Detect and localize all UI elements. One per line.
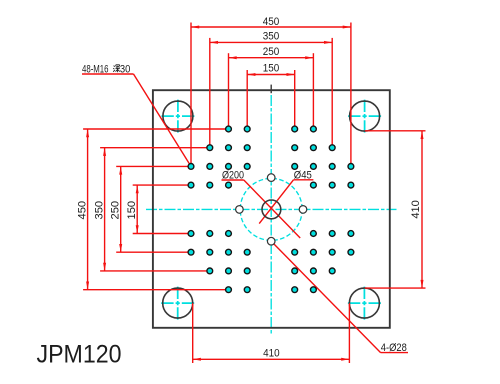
svg-text:350: 350 [263, 30, 280, 42]
tapped hole M16 r6c3 [226, 249, 232, 255]
tapped hole M16 r6c4 [244, 249, 250, 255]
corner tie-bar hole bottom-right (D28) [349, 288, 379, 318]
tapped hole M16 r3c6 [311, 164, 317, 170]
svg-text:350: 350 [94, 201, 106, 220]
label 350 left [94, 201, 106, 220]
tapped hole M16 r2c4 [244, 145, 250, 151]
tapped hole M16 r1c5 [292, 126, 298, 132]
dimension 250 top: line, arrows, extension lines [229, 53, 314, 129]
label 4-D28 [381, 342, 407, 354]
tapped hole M16 r4c6 [311, 182, 317, 188]
tapped hole M16 r3c4 [244, 164, 250, 170]
svg-text:410: 410 [410, 200, 422, 219]
crosshair centerlines top-left corner hole [161, 100, 194, 133]
svg-text:Ø45: Ø45 [294, 169, 312, 181]
label 150 left [126, 201, 138, 220]
tapped hole M16 r6c5 [292, 249, 298, 255]
tapped hole M16 r7c6 [311, 268, 317, 274]
tapped hole M16 r5c3 [226, 231, 232, 237]
tapped hole M16 r3c8 [348, 164, 354, 170]
crosshair centerlines bottom-left corner hole [161, 287, 194, 320]
tapped hole M16 r3c1 [188, 164, 194, 170]
small hole on D200 circle (right) [299, 206, 307, 214]
tapped hole M16 r2c7 [329, 145, 335, 151]
svg-text:4-Ø28: 4-Ø28 [381, 342, 407, 354]
label 250 left [110, 201, 122, 220]
tapped hole M16 r7c3 [226, 268, 232, 274]
svg-text:250: 250 [110, 201, 122, 220]
corner tie-bar hole bottom-left (D28) [163, 288, 193, 318]
tapped hole M16 r4c1 [188, 182, 194, 188]
tapped hole M16 r5c6 [311, 231, 317, 237]
corner tie-bar hole top-right (D28) [350, 101, 380, 131]
leader for D200 label (through center) [222, 180, 301, 238]
tapped hole M16 r2c6 [311, 145, 317, 151]
tapped hole M16 r5c7 [329, 231, 335, 237]
tapped hole M16 r5c8 [348, 231, 354, 237]
svg-text:250: 250 [263, 46, 280, 58]
small hole on D200 circle (bottom) [267, 237, 275, 245]
tapped hole M16 r3c5 [292, 164, 298, 170]
tapped hole M16 r2c5 [292, 145, 298, 151]
center hole D45 [262, 200, 281, 219]
tapped hole M16 r3c3 [226, 164, 232, 170]
tapped hole M16 r1c6 [311, 126, 317, 132]
svg-text:150: 150 [126, 201, 138, 220]
leader for 4-D28 label [273, 243, 408, 353]
label 450 left [77, 201, 89, 220]
dimension 250 left: line, arrows, extension lines [116, 166, 191, 252]
dimension 350 top: line, arrows, extension lines [210, 38, 332, 148]
label 150 top [263, 63, 280, 75]
tapped hole M16 r7c5 [292, 268, 298, 274]
svg-text:48-M16: 48-M16 [82, 63, 109, 75]
svg-text:450: 450 [263, 16, 280, 28]
crosshair centerlines bottom-right corner hole [348, 287, 381, 320]
label 48-M16 depth 30 [82, 63, 130, 75]
tapped hole M16 r6c6 [311, 249, 317, 255]
crosshair centerlines top-right corner hole [348, 100, 381, 133]
tapped hole M16 r2c2 [207, 145, 213, 151]
locating ring circle D200 (dashed) [240, 178, 302, 240]
tapped hole M16 r8c6 [311, 287, 317, 293]
tapped hole M16 r6c1 [188, 249, 194, 255]
tapped hole M16 r6c7 [329, 249, 335, 255]
dimension 410 bottom: line, arrows, extension lines [193, 303, 350, 363]
svg-text:Ø200: Ø200 [222, 170, 244, 182]
tapped hole M16 r4c8 [348, 182, 354, 188]
dimension 150 top: line, arrows, extension lines [247, 70, 295, 129]
tapped hole M16 r7c4 [244, 268, 250, 274]
tapped hole M16 r7c2 [207, 268, 213, 274]
corner tie-bar hole top-left (D28) [163, 101, 193, 131]
tapped hole M16 r3c7 [329, 164, 335, 170]
label D200 [222, 170, 244, 182]
leader for D45 label (through center) [259, 180, 313, 224]
horizontal centerline [146, 208, 397, 210]
tapped hole M16 r5c1 [188, 231, 194, 237]
tapped hole M16 r4c2 [207, 182, 213, 188]
tapped hole M16 r8c5 [292, 287, 298, 293]
svg-text:JPM120: JPM120 [37, 340, 122, 368]
label 250 top [263, 46, 280, 58]
small hole on D200 circle (left) [236, 206, 244, 214]
leader for 48-M16 depth 30 label [82, 74, 191, 166]
centerline dark tick above plate [270, 85, 272, 94]
svg-text:410: 410 [263, 348, 280, 360]
tapped hole M16 r4c3 [226, 182, 232, 188]
svg-text:450: 450 [77, 201, 89, 220]
small hole on D200 circle (top) [267, 174, 275, 182]
tapped hole M16 r3c2 [207, 164, 213, 170]
tapped hole M16 r5c2 [207, 231, 213, 237]
tapped hole M16 r8c3 [226, 287, 232, 293]
model name JPM120 [37, 340, 122, 368]
tapped hole M16 r7c7 [329, 268, 335, 274]
tapped hole M16 r6c8 [348, 249, 354, 255]
tapped hole M16 r1c4 [244, 126, 250, 132]
dimension 350 left: line, arrows, extension lines [100, 148, 210, 271]
label 410 bottom [263, 348, 280, 360]
label 450 top [263, 16, 280, 28]
label 410 right [410, 200, 422, 219]
platen plate outline [153, 90, 390, 328]
tapped hole M16 r6c2 [207, 249, 213, 255]
dimension 450 left: line, arrows, extension lines [83, 129, 228, 290]
label 350 top [263, 30, 280, 42]
dimension 450 top: line, arrows, extension lines [191, 23, 351, 167]
tapped hole M16 r8c4 [244, 287, 250, 293]
label D45 [294, 169, 312, 181]
svg-text:150: 150 [263, 63, 280, 75]
tapped hole M16 r4c7 [329, 182, 335, 188]
svg-text:30: 30 [120, 63, 131, 75]
dimension 150 left: line, arrows, extension lines [133, 185, 191, 233]
vertical centerline [270, 95, 272, 336]
tapped hole M16 r2c3 [226, 145, 232, 151]
dimension 410 right: line, arrows, extension lines [365, 131, 426, 288]
tapped hole M16 r1c3 [226, 126, 232, 132]
